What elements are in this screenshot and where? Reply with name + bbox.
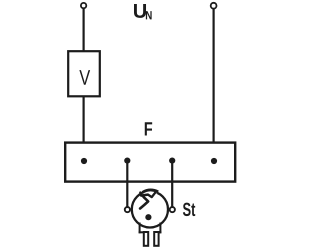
terminal right [211,3,217,9]
lamp pin-hole right [170,207,175,212]
lamp pin-hole left [125,207,130,212]
wire mid-right node to lamp pin [171,161,173,207]
terminal left [81,3,86,8]
lamp key notch hang [148,191,157,197]
node left [81,158,87,164]
wire terminal-right to F box [213,9,215,161]
ballast F box [65,143,235,182]
lamp base step right [156,231,162,233]
voltmeter V [68,51,100,96]
lamp center dot [145,214,151,220]
wire mid-left node to lamp pin [126,161,128,207]
label U_N [134,4,146,18]
lamp contact pin left [144,232,148,246]
node right [211,158,217,164]
label St [183,203,191,216]
wire V to F box [82,96,84,161]
node mid-right [169,158,175,164]
lamp top cap erase [143,189,157,194]
lamp base body left wall [139,223,141,234]
node mid-left [124,158,130,164]
lamp inner squiggle tail [140,197,148,209]
lamp contact pin right [154,232,158,246]
wire terminal-left to V [82,8,84,51]
lamp base body right wall [159,223,161,234]
lamp base circle [132,191,168,227]
label F [145,122,152,135]
lamp base step left [139,231,145,233]
lamp inner squiggle bar [140,193,147,196]
lamp top cap thick arc [142,190,158,192]
